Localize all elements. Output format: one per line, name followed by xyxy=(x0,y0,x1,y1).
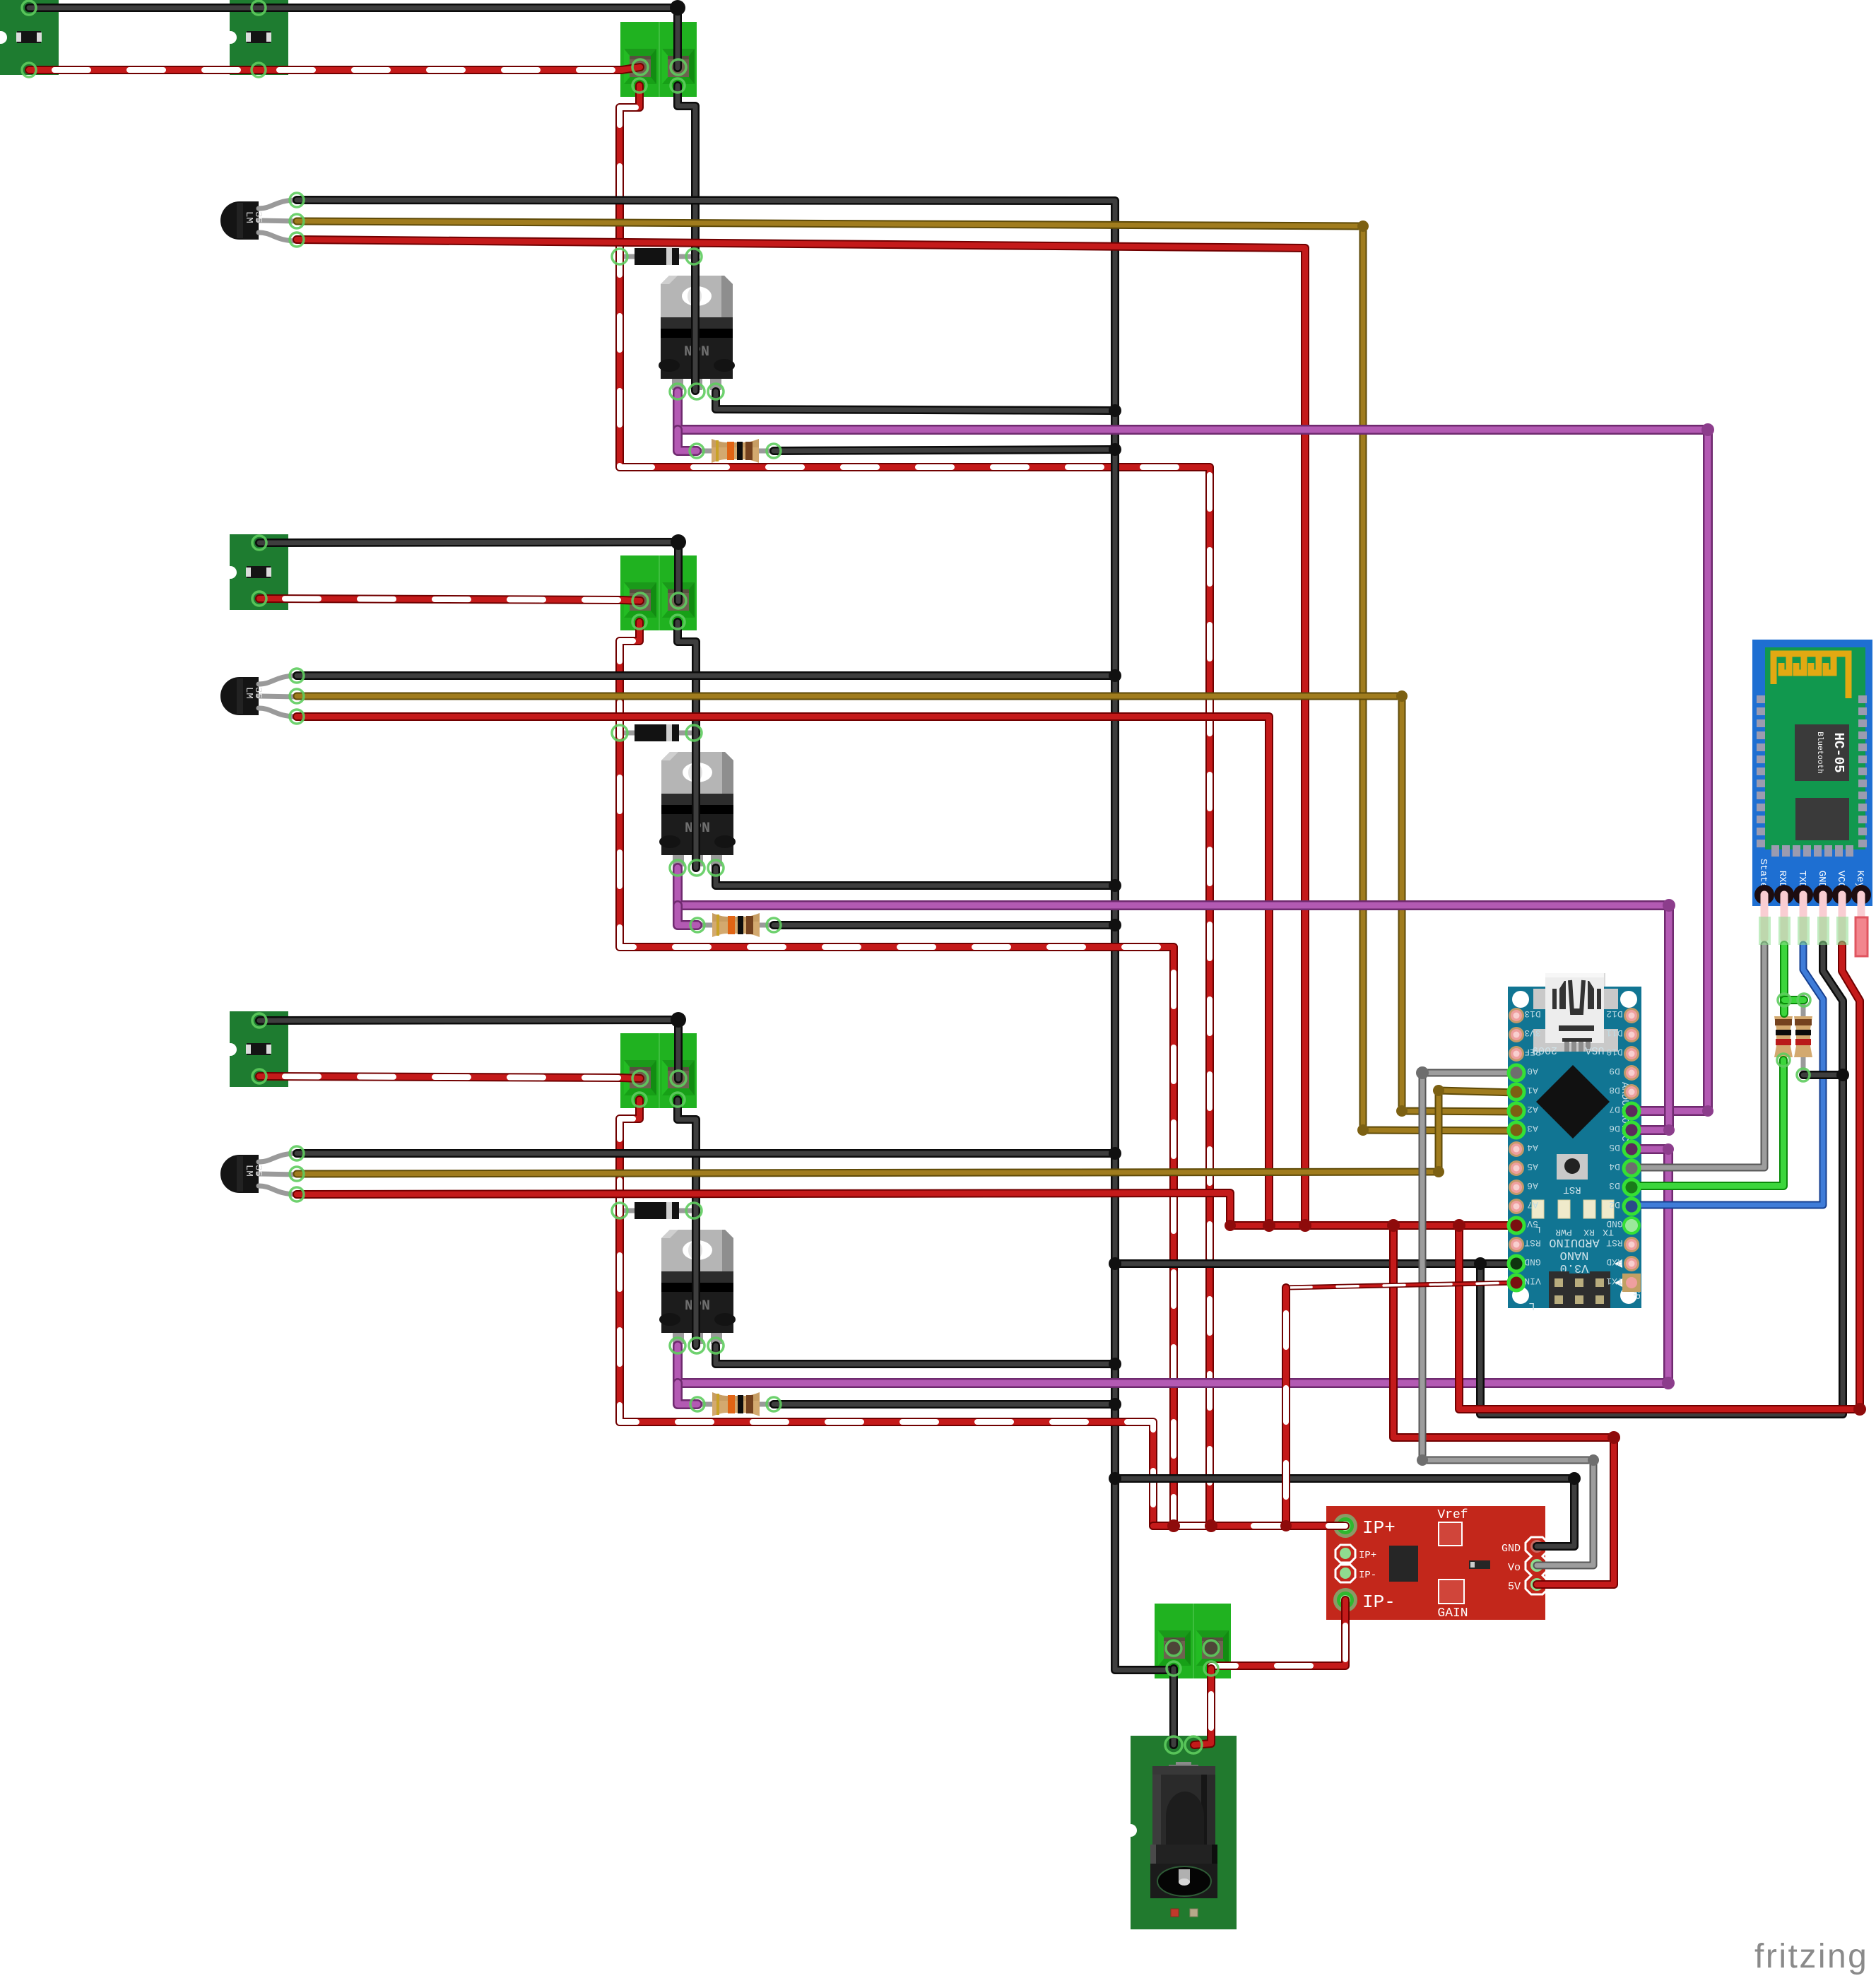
wire: T4 black to jack xyxy=(1169,1669,1178,1745)
wire: R5 bottom black to GND loop xyxy=(1803,1071,1843,1079)
purple corner dots xyxy=(1662,423,1714,1389)
LM35 U2 sensor 1 xyxy=(220,200,297,241)
LM35 U4 sensor 3 xyxy=(220,1153,297,1194)
terminal block T2 xyxy=(620,555,697,630)
wire: R3 black to GND bus xyxy=(774,1400,1115,1409)
svg-text:Vref: Vref xyxy=(1437,1508,1468,1522)
pad A7 xyxy=(1509,1199,1524,1214)
pad GND xyxy=(1508,1255,1525,1272)
pad A5 xyxy=(1509,1160,1524,1176)
pad TX1 xyxy=(1622,1274,1641,1292)
resistor R4 vertical 1k xyxy=(1774,997,1793,1076)
wire: LM35-1 signal olive to A3 xyxy=(297,221,1516,1131)
svg-text:D12: D12 xyxy=(1606,1008,1622,1019)
svg-text:A0: A0 xyxy=(1527,1066,1538,1076)
wire: module row 2 red dashed to T2 xyxy=(259,599,640,601)
wire: LM35-1 black GND bus vertical xyxy=(297,200,1174,1670)
pad D4 xyxy=(1623,1160,1640,1177)
resistor R5 vertical 2k xyxy=(1794,997,1812,1076)
jack pad rings xyxy=(1165,1736,1182,1753)
pad A1 xyxy=(1508,1083,1525,1100)
svg-text:D6: D6 xyxy=(1609,1123,1620,1134)
wire: T3 red dashed supply to IP+ bus xyxy=(620,1100,1153,1526)
wire: R2 black to GND bus xyxy=(774,921,1115,929)
svg-text:D8: D8 xyxy=(1609,1085,1620,1095)
pad A6 xyxy=(1509,1180,1524,1195)
svg-text:D10: D10 xyxy=(1606,1047,1622,1057)
wire: Q1 emitter black to GND bus xyxy=(716,392,1115,411)
pad D2 xyxy=(1623,1198,1640,1215)
wire: Q2 base purple to D6 xyxy=(678,868,1669,1130)
olive corner dots xyxy=(1357,220,1444,1177)
pad D13 xyxy=(1509,1008,1524,1023)
pad 3V3 xyxy=(1509,1027,1524,1042)
svg-text:RST: RST xyxy=(1563,1184,1581,1195)
wire: Nano VIN thin red dashed xyxy=(1286,1283,1516,1288)
wire: IP- red dashed to T4 xyxy=(1211,1600,1345,1669)
terminal block T3 xyxy=(620,1033,697,1108)
DC barrel jack J1 on PCB xyxy=(1124,1736,1237,1929)
wire: VIN dashed vertical to IP+ bus xyxy=(1282,1288,1290,1526)
wire: LM35-2 black to GND bus xyxy=(297,671,1115,680)
terminal block T4 xyxy=(1155,1604,1231,1678)
svg-text:IP-: IP- xyxy=(1362,1592,1396,1613)
svg-text:GND: GND xyxy=(1606,1218,1623,1229)
pad D6 xyxy=(1623,1122,1640,1139)
pad D10 xyxy=(1624,1046,1639,1061)
wire: Q1 base stub to R1 xyxy=(678,430,697,451)
svg-text:A7: A7 xyxy=(1527,1199,1538,1210)
wire: HC-05 RXD green to divider xyxy=(1780,945,1788,1013)
pad 5V xyxy=(1508,1217,1525,1234)
LED module M1b xyxy=(224,0,288,75)
wire: R1 black to GND bus xyxy=(774,449,1115,451)
svg-text:D11: D11 xyxy=(1606,1028,1623,1038)
svg-text:D9: D9 xyxy=(1609,1066,1620,1076)
pad D3 xyxy=(1623,1179,1640,1196)
wire: T3 black to Q3 collector xyxy=(678,1100,696,1346)
transistor Q2 NPN TO-220 xyxy=(659,752,736,866)
pad D5 xyxy=(1623,1141,1640,1158)
svg-text:State: State xyxy=(1757,859,1769,888)
green pad highlights on HC-05 wires xyxy=(1759,917,1848,945)
svg-text:D13: D13 xyxy=(1524,1008,1540,1019)
wire: module row 3 black to T3 xyxy=(259,1020,678,1079)
svg-text:D5: D5 xyxy=(1609,1142,1620,1153)
diode D2 xyxy=(620,724,694,741)
wire: Q3 base purple to D5 xyxy=(678,1149,1668,1383)
LM35 pin rings xyxy=(290,193,304,207)
svg-text:L: L xyxy=(1528,1300,1535,1312)
wire: HC-05 GND black loop to Nano GND xyxy=(1480,945,1843,1414)
wire: LM35-3 black to GND bus xyxy=(297,1149,1115,1158)
wire: T2 red dashed supply to IP+ bus xyxy=(620,622,1174,1526)
LED module M3 xyxy=(224,1011,288,1087)
wire: Q2 base stub to R2 xyxy=(678,905,697,925)
wire: Q2 emitter black to GND bus xyxy=(716,868,1115,886)
transistor leg rings xyxy=(670,384,685,399)
wire: LM35-3 olive to A1 xyxy=(297,1090,1516,1174)
junction dots on GND bus xyxy=(670,0,1849,1485)
terminal opening rings + pins xyxy=(632,59,648,75)
svg-text:5V: 5V xyxy=(1508,1581,1521,1593)
jack solder pads xyxy=(1167,1739,1180,1751)
svg-text:A6: A6 xyxy=(1527,1180,1538,1191)
wire: T1 red dashed supply down-right to IP+ bus xyxy=(620,86,1210,1526)
svg-text:ARDUINO: ARDUINO xyxy=(1549,1235,1599,1249)
pad RST xyxy=(1624,1237,1639,1252)
svg-text:D3: D3 xyxy=(1609,1180,1620,1191)
pad A2 xyxy=(1508,1102,1525,1119)
svg-text:A2: A2 xyxy=(1527,1104,1538,1115)
pad D8 xyxy=(1624,1084,1639,1100)
svg-text:TX1: TX1 xyxy=(1606,1276,1623,1286)
pad D11 xyxy=(1624,1027,1639,1042)
wire: LM35-3 red joins 5V rail to Nano 5V xyxy=(297,1193,1516,1225)
pad D12 xyxy=(1624,1008,1639,1023)
ACS712 current sensor U6 xyxy=(1326,1506,1548,1621)
pad A0 xyxy=(1508,1064,1525,1081)
pad GND right xyxy=(1624,1218,1639,1233)
svg-text:GND: GND xyxy=(1524,1257,1541,1267)
HC-05 bluetooth module U5 xyxy=(1752,640,1872,956)
svg-text:D4: D4 xyxy=(1609,1161,1620,1172)
diode end rings xyxy=(612,249,627,264)
svg-text:Bluetooth: Bluetooth xyxy=(1815,731,1824,773)
svg-text:NANO: NANO xyxy=(1560,1248,1589,1262)
svg-text:VIN: VIN xyxy=(1524,1276,1540,1286)
svg-text:RST: RST xyxy=(1606,1237,1623,1248)
wire: T1 black to Q1 collector xyxy=(678,86,695,391)
wire: T2 black to Q2 collector xyxy=(678,622,696,868)
svg-text:A5: A5 xyxy=(1527,1161,1538,1172)
svg-text:GND: GND xyxy=(1502,1543,1521,1555)
svg-text:HC-05: HC-05 xyxy=(1831,732,1846,772)
LM35 U3 sensor 2 xyxy=(220,676,297,717)
wire: IP+ red dashed bus row xyxy=(1153,1522,1345,1530)
svg-text:RXD: RXD xyxy=(1606,1257,1623,1267)
diode D1 xyxy=(620,248,694,265)
svg-text:IP+: IP+ xyxy=(1359,1550,1376,1561)
wire: ACS712 GND black to GND bus xyxy=(1115,1478,1574,1546)
pad D9 xyxy=(1624,1065,1639,1081)
resistor R3 xyxy=(697,1392,774,1416)
svg-text:A3: A3 xyxy=(1527,1123,1538,1134)
wire: Q1 base purple to D7 xyxy=(678,392,1708,1111)
svg-text:A1: A1 xyxy=(1527,1085,1538,1095)
wire: green jumper to R5 top xyxy=(1784,996,1804,1004)
svg-text:D2: D2 xyxy=(1609,1199,1620,1210)
wire: Nano GND row black xyxy=(1116,1259,1516,1268)
svg-text:IP+: IP+ xyxy=(1362,1517,1396,1539)
wire: LM35-2 olive to A2 xyxy=(297,696,1516,1112)
diode D3 xyxy=(620,1202,694,1219)
pad RXD xyxy=(1624,1256,1639,1271)
wire: module row 1 black to T1 xyxy=(29,8,678,68)
pad VIN xyxy=(1508,1274,1525,1291)
wire: module row 3 red dashed to T3 xyxy=(259,1076,640,1078)
svg-text:USA: USA xyxy=(1585,1044,1604,1056)
transistor Q1 NPN TO-220 xyxy=(659,276,735,390)
LED module M2 xyxy=(224,534,288,610)
wire: LM35-2 red to 5V rail xyxy=(297,717,1269,1225)
transistor Q3 NPN TO-220 xyxy=(659,1230,736,1344)
wire: ACS712 Vo gray to A0 xyxy=(1422,1073,1593,1565)
pad REF xyxy=(1509,1046,1524,1061)
Nano pads xyxy=(1508,1008,1641,1292)
svg-text:Vo: Vo xyxy=(1508,1562,1521,1574)
wire: HC-05 State gray to D4 xyxy=(1632,945,1764,1168)
svg-text:REF: REF xyxy=(1524,1047,1540,1057)
vertical resistor rings xyxy=(1778,994,1791,1006)
wire: module row 1 red dashed to T1 xyxy=(29,67,640,70)
wire: Q3 emitter black to GND bus xyxy=(716,1346,1115,1364)
svg-text:GAIN: GAIN xyxy=(1437,1606,1468,1621)
LED module M1a xyxy=(0,0,59,75)
pad A3 xyxy=(1508,1122,1525,1139)
pad A4 xyxy=(1509,1141,1524,1157)
wire: module row 2 black to T2 xyxy=(259,542,678,601)
svg-text:fritzing: fritzing xyxy=(1754,1938,1868,1975)
wire: ACS712 5V red loop xyxy=(1393,1225,1614,1584)
junction dots on red rails xyxy=(1167,1219,1866,1532)
wire: LM35-1 red to 5V rail xyxy=(297,240,1305,1225)
wire: HC-05 TXD blue to D2 xyxy=(1632,945,1823,1205)
resistor end rings xyxy=(690,444,704,458)
wire: T4 red dashed to jack xyxy=(1194,1669,1211,1745)
terminal block T1 xyxy=(620,22,697,97)
pad RST xyxy=(1509,1237,1524,1252)
resistor R1 xyxy=(697,439,774,463)
gray corner dots xyxy=(1416,1066,1599,1466)
svg-text:RST: RST xyxy=(1524,1237,1541,1248)
svg-text:A4: A4 xyxy=(1527,1142,1538,1153)
svg-text:D7: D7 xyxy=(1609,1104,1620,1115)
wire: HC-05 VCC red loop xyxy=(1459,945,1860,1409)
svg-text:3V3: 3V3 xyxy=(1524,1028,1540,1038)
wire: R4 bottom green to D3 xyxy=(1632,1060,1783,1186)
Arduino Nano U1 xyxy=(1508,973,1641,1312)
svg-text:5V: 5V xyxy=(1527,1218,1538,1229)
wire: Q3 base stub to R3 xyxy=(678,1383,697,1404)
svg-text:IP-: IP- xyxy=(1359,1570,1376,1581)
resistor R2 xyxy=(697,913,774,937)
pad D7 xyxy=(1623,1102,1640,1119)
